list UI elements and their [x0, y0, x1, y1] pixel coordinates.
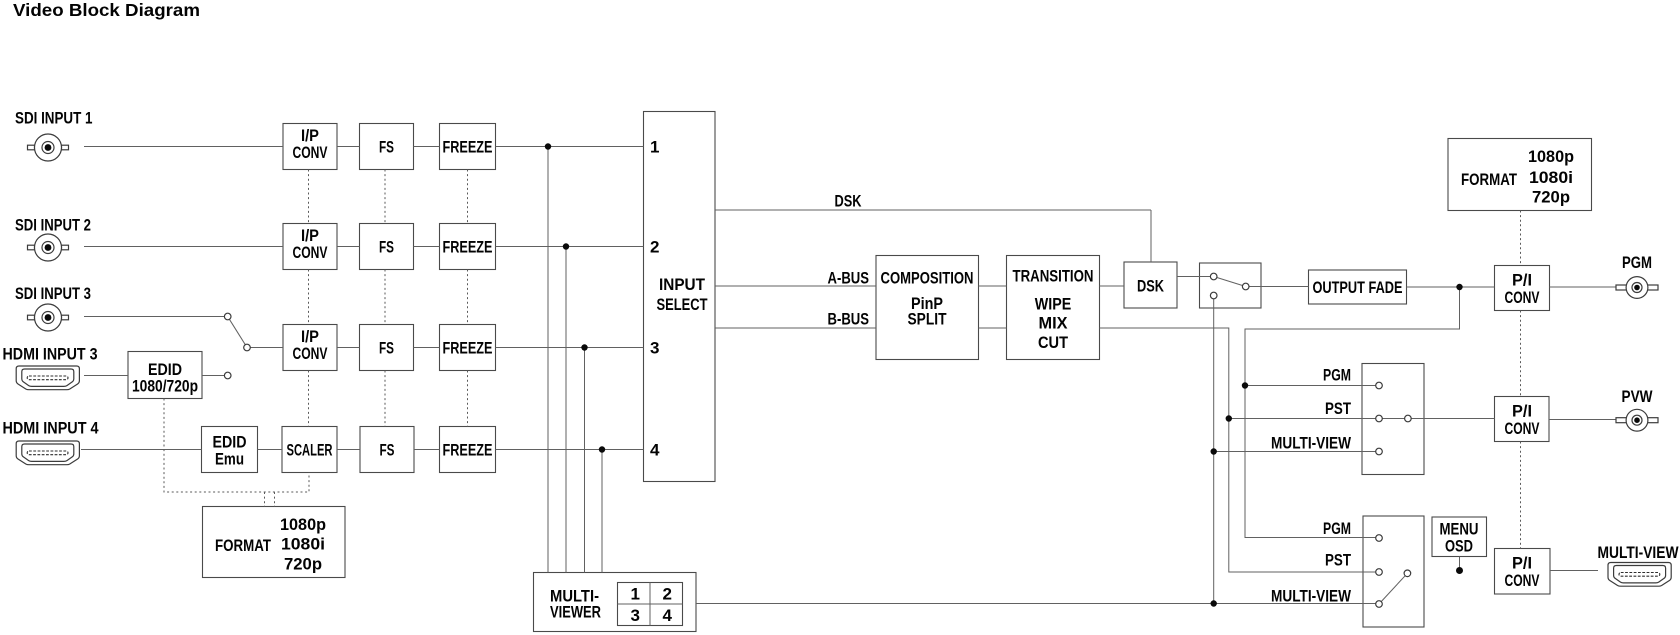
- svg-text:3: 3: [650, 339, 659, 358]
- svg-text:MULTI-VIEW: MULTI-VIEW: [1598, 543, 1680, 562]
- block FREEZE row4: [440, 427, 496, 473]
- wire P/I CONV to PVW BNC: [1549, 419, 1616, 421]
- wire row4 FS to FREEZE: [414, 449, 440, 451]
- svg-text:B-BUS: B-BUS: [828, 310, 870, 329]
- svg-text:FORMAT: FORMAT: [1461, 170, 1517, 189]
- wire SDI input 1 to I/P CONV: [84, 146, 283, 148]
- junction tap 4: [599, 446, 605, 452]
- wire MV switch diagonal: [1381, 576, 1405, 602]
- svg-text:PST: PST: [1325, 551, 1351, 570]
- node PVW switch PGM contact: [1376, 382, 1383, 389]
- svg-text:SCALER: SCALER: [287, 441, 333, 460]
- label EDID 1080/720p: [132, 360, 198, 396]
- label I/P CONV row1: [293, 126, 328, 162]
- dotted format link column FREEZE: [467, 170, 469, 427]
- wire row1 FS to FREEZE: [414, 146, 440, 148]
- node MV switch PST contact: [1376, 569, 1383, 576]
- label I/P CONV row2: [293, 226, 328, 262]
- block FREEZE row2: [440, 224, 496, 270]
- svg-text:P/I: P/I: [1512, 554, 1532, 573]
- BNC connector SDI INPUT 2: [28, 234, 69, 261]
- node PVW switch MULTI-VIEW contact: [1376, 448, 1383, 455]
- label INPUT SELECT: [657, 275, 708, 314]
- svg-text:COMPOSITION: COMPOSITION: [881, 269, 974, 288]
- junction PST row: [1226, 415, 1232, 421]
- wire PVW switch to P/I CONV: [1411, 418, 1494, 420]
- wire PVW switch pole link: [1382, 418, 1404, 420]
- label FORMAT bottom: [215, 515, 326, 574]
- dotted EDID to format box: [164, 399, 309, 493]
- node fade switch output contact: [1242, 283, 1249, 290]
- wire switch pole to row3 I/P CONV: [250, 347, 283, 349]
- label FORMAT top: [1461, 147, 1574, 207]
- svg-text:PGM: PGM: [1323, 519, 1351, 538]
- block P/I CONV PGM: [1495, 266, 1550, 311]
- BNC connector SDI INPUT 3: [28, 304, 69, 331]
- label TRANSITION: [1013, 267, 1094, 352]
- svg-text:MULTI-VIEW: MULTI-VIEW: [1271, 433, 1352, 452]
- dotted format box fork left: [264, 492, 266, 507]
- block DSK: [1124, 262, 1177, 308]
- junction MULTI-VIEW bottom: [1211, 600, 1217, 606]
- block FS row3: [360, 325, 414, 371]
- wire multiviewer tap 3 vertical: [584, 348, 586, 573]
- wire HDMI input 3 to EDID: [84, 375, 128, 377]
- label COMPOSITION: [881, 269, 974, 329]
- label EDID Emu: [213, 433, 247, 469]
- wire PST row to PVW switch: [1229, 418, 1376, 420]
- block COMPOSITION: [876, 256, 979, 360]
- wire row3 I/P CONV to FS: [337, 347, 360, 349]
- wire P/I CONV to PGM BNC: [1550, 286, 1617, 288]
- BNC connector PGM output: [1616, 277, 1658, 299]
- dotted format box fork right: [274, 492, 276, 507]
- wire SDI input 3 to switch: [84, 316, 224, 318]
- svg-text:PGM: PGM: [1323, 365, 1351, 384]
- block FORMAT top: [1448, 139, 1592, 211]
- wire TRANSITION B-BUS bypass to PST bus: [1100, 328, 1376, 572]
- block FREEZE row3: [440, 325, 496, 371]
- block FS row4: [360, 427, 414, 473]
- wire OUTPUT FADE to P/I CONV PGM: [1407, 286, 1495, 288]
- svg-text:CUT: CUT: [1038, 333, 1069, 352]
- wire EDID Emu to SCALER: [258, 449, 283, 451]
- svg-text:FS: FS: [379, 339, 394, 358]
- wire HDMI input 4 to EDID Emu: [81, 449, 202, 451]
- svg-text:PGM: PGM: [1622, 253, 1652, 272]
- wire multiviewer tap 2 vertical: [565, 247, 567, 573]
- dotted format link column I/P CONV: [308, 170, 310, 427]
- block FS row1: [360, 124, 414, 170]
- svg-text:SDI INPUT 1: SDI INPUT 1: [15, 109, 93, 128]
- dotted format link column FS: [384, 170, 386, 427]
- svg-text:MIX: MIX: [1039, 313, 1069, 332]
- label MENU OSD: [1440, 520, 1479, 556]
- node input3 switch HDMI contact: [224, 372, 231, 379]
- block EDID Emu: [202, 427, 258, 473]
- svg-text:HDMI INPUT 4: HDMI INPUT 4: [3, 419, 99, 438]
- junction PGM row: [1242, 382, 1248, 388]
- svg-text:CONV: CONV: [293, 143, 328, 162]
- wire DSK block to fade switch contact: [1177, 276, 1210, 278]
- node MV switch pole: [1404, 570, 1411, 577]
- junction tap 1: [545, 143, 551, 149]
- svg-text:SDI INPUT 3: SDI INPUT 3: [15, 284, 91, 303]
- wire fade switch to OUTPUT FADE: [1249, 286, 1309, 288]
- block SCALER: [282, 427, 337, 473]
- svg-text:FORMAT: FORMAT: [215, 536, 271, 555]
- svg-text:4: 4: [650, 441, 660, 460]
- node MV switch MULTI-VIEW contact: [1376, 601, 1383, 608]
- svg-text:1080i: 1080i: [281, 535, 325, 554]
- svg-text:OUTPUT FADE: OUTPUT FADE: [1313, 278, 1403, 297]
- svg-text:TRANSITION: TRANSITION: [1013, 267, 1094, 286]
- wire row4 SCALER to FS: [337, 449, 360, 451]
- svg-text:FREEZE: FREEZE: [443, 138, 493, 157]
- wire fade switch lower contact vertical multiview bus: [1213, 299, 1215, 604]
- wire MULTI-VIEW row to PVW switch: [1214, 451, 1376, 453]
- block FORMAT bottom: [203, 507, 346, 578]
- label P/I CONV PGM: [1505, 271, 1540, 307]
- dotted output format link: [1520, 211, 1522, 549]
- BNC connector PVW output: [1616, 409, 1658, 431]
- block I/P CONV row2: [283, 224, 337, 270]
- wire EDID to switch lower contact: [202, 375, 224, 377]
- svg-text:4: 4: [663, 606, 673, 625]
- node input3 switch pole: [244, 344, 251, 351]
- svg-text:SDI INPUT 2: SDI INPUT 2: [15, 216, 91, 235]
- HDMI connector INPUT 4: [16, 441, 79, 465]
- wire SDI input 2 to I/P CONV: [84, 246, 283, 248]
- svg-text:FS: FS: [380, 441, 395, 460]
- wire B-BUS to COMPOSITION: [715, 327, 876, 329]
- svg-text:CONV: CONV: [293, 344, 328, 363]
- svg-text:1080p: 1080p: [280, 515, 326, 534]
- block P/I CONV PVW: [1495, 397, 1550, 442]
- svg-text:OSD: OSD: [1445, 537, 1473, 556]
- svg-text:1: 1: [650, 138, 659, 157]
- svg-text:DSK: DSK: [835, 192, 863, 211]
- label I/P CONV row3: [293, 327, 328, 363]
- block I/P CONV row3: [283, 325, 337, 371]
- block TRANSITION: [1007, 256, 1100, 360]
- wire COMPOSITION to TRANSITION lower: [979, 327, 1007, 329]
- label P/I CONV MV: [1505, 554, 1540, 590]
- wire multiviewer tap 1 vertical: [547, 147, 549, 573]
- svg-text:SELECT: SELECT: [657, 295, 708, 314]
- svg-text:3: 3: [631, 606, 640, 625]
- svg-text:CONV: CONV: [1505, 288, 1540, 307]
- svg-text:720p: 720p: [284, 555, 322, 574]
- wire row2 FS to FREEZE: [414, 246, 440, 248]
- node PVW switch PST contact: [1376, 415, 1383, 422]
- svg-text:VIEWER: VIEWER: [550, 603, 601, 622]
- wire MULTI-VIEWER output to MV switch: [696, 603, 1376, 605]
- block FS row2: [360, 224, 414, 270]
- block EDID 1080/720p: [128, 352, 202, 399]
- block INPUT SELECT: [644, 112, 716, 482]
- svg-text:1: 1: [631, 585, 640, 604]
- HDMI connector MULTI-VIEW output: [1608, 563, 1671, 587]
- svg-text:1080i: 1080i: [1529, 168, 1573, 187]
- svg-text:INPUT: INPUT: [659, 275, 706, 294]
- svg-text:CONV: CONV: [1505, 419, 1540, 438]
- svg-text:FS: FS: [379, 238, 394, 257]
- wire row1 FREEZE to INPUT SELECT: [496, 146, 644, 148]
- svg-text:FREEZE: FREEZE: [443, 339, 493, 358]
- wire PGM bus return: [1245, 287, 1460, 538]
- svg-text:P/I: P/I: [1512, 402, 1532, 421]
- wire switch SDI3 diagonal: [229, 319, 245, 344]
- block MV switch: [1363, 516, 1424, 627]
- wire fade switch diagonal: [1217, 278, 1243, 286]
- wire P/I CONV to MULTI-VIEW HDMI: [1550, 570, 1598, 572]
- junction MULTI-VIEW row: [1211, 448, 1217, 454]
- node MV switch PGM contact: [1376, 535, 1383, 542]
- block MULTI-VIEWER: [534, 573, 697, 632]
- svg-text:FREEZE: FREEZE: [443, 441, 493, 460]
- svg-text:1080/720p: 1080/720p: [132, 377, 198, 396]
- svg-text:P/I: P/I: [1512, 271, 1532, 290]
- BNC connector SDI INPUT 1: [28, 134, 69, 161]
- junction MENU OSD: [1456, 567, 1463, 574]
- wire row3 FS to FREEZE: [414, 347, 440, 349]
- svg-text:Emu: Emu: [215, 449, 244, 468]
- wire DSK net vertical drop: [1150, 210, 1152, 262]
- block MULTI-VIEWER grid: [618, 583, 683, 626]
- block fade switch: [1200, 263, 1262, 308]
- svg-text:FS: FS: [379, 138, 394, 157]
- wire MENU OSD drop: [1459, 557, 1461, 568]
- svg-text:720p: 720p: [1532, 188, 1570, 207]
- svg-text:2: 2: [663, 585, 672, 604]
- wire row2 FREEZE to INPUT SELECT: [496, 246, 644, 248]
- block OUTPUT FADE: [1309, 270, 1407, 304]
- wire multiviewer tap 4 vertical: [601, 450, 603, 573]
- label MULTI-VIEWER: [550, 586, 601, 621]
- svg-text:SPLIT: SPLIT: [908, 310, 947, 329]
- wire PGM row to PVW switch: [1245, 385, 1376, 387]
- wire row1 I/P CONV to FS: [337, 146, 360, 148]
- svg-text:1080p: 1080p: [1528, 147, 1574, 166]
- block PVW switch: [1362, 364, 1424, 475]
- block FREEZE row1: [440, 124, 496, 170]
- svg-text:CONV: CONV: [293, 243, 328, 262]
- svg-text:HDMI INPUT 3: HDMI INPUT 3: [3, 345, 98, 364]
- label P/I CONV PVW: [1505, 402, 1540, 438]
- HDMI connector INPUT 3: [16, 366, 79, 390]
- wire row2 I/P CONV to FS: [337, 246, 360, 248]
- svg-text:A-BUS: A-BUS: [828, 269, 870, 288]
- junction tap 2: [563, 243, 569, 249]
- svg-text:PVW: PVW: [1622, 387, 1654, 406]
- svg-text:WIPE: WIPE: [1035, 294, 1072, 313]
- svg-text:MULTI-VIEW: MULTI-VIEW: [1271, 587, 1352, 606]
- wire TRANSITION to DSK block: [1100, 285, 1125, 287]
- node input3 switch SDI contact: [224, 313, 231, 320]
- node fade switch input contact: [1210, 273, 1217, 280]
- junction PGM after output fade: [1456, 284, 1462, 290]
- block I/P CONV row1: [283, 124, 337, 170]
- wire row3 FREEZE to INPUT SELECT: [496, 347, 644, 349]
- svg-text:FREEZE: FREEZE: [443, 238, 493, 257]
- junction tap 3: [581, 344, 587, 350]
- block P/I CONV MV: [1495, 549, 1551, 595]
- wire A-BUS to COMPOSITION: [715, 285, 876, 287]
- svg-text:Video Block Diagram: Video Block Diagram: [13, 0, 200, 20]
- block MENU OSD: [1432, 517, 1487, 557]
- node PVW switch pole: [1405, 415, 1412, 422]
- svg-text:2: 2: [650, 238, 659, 257]
- svg-text:PST: PST: [1325, 399, 1351, 418]
- svg-text:DSK: DSK: [1137, 277, 1165, 296]
- svg-text:CONV: CONV: [1505, 571, 1540, 590]
- wire DSK net horizontal: [715, 209, 1151, 211]
- node fade switch lower contact: [1210, 292, 1217, 299]
- wire COMPOSITION to TRANSITION upper: [979, 285, 1007, 287]
- wire row4 FREEZE to INPUT SELECT: [496, 449, 644, 451]
